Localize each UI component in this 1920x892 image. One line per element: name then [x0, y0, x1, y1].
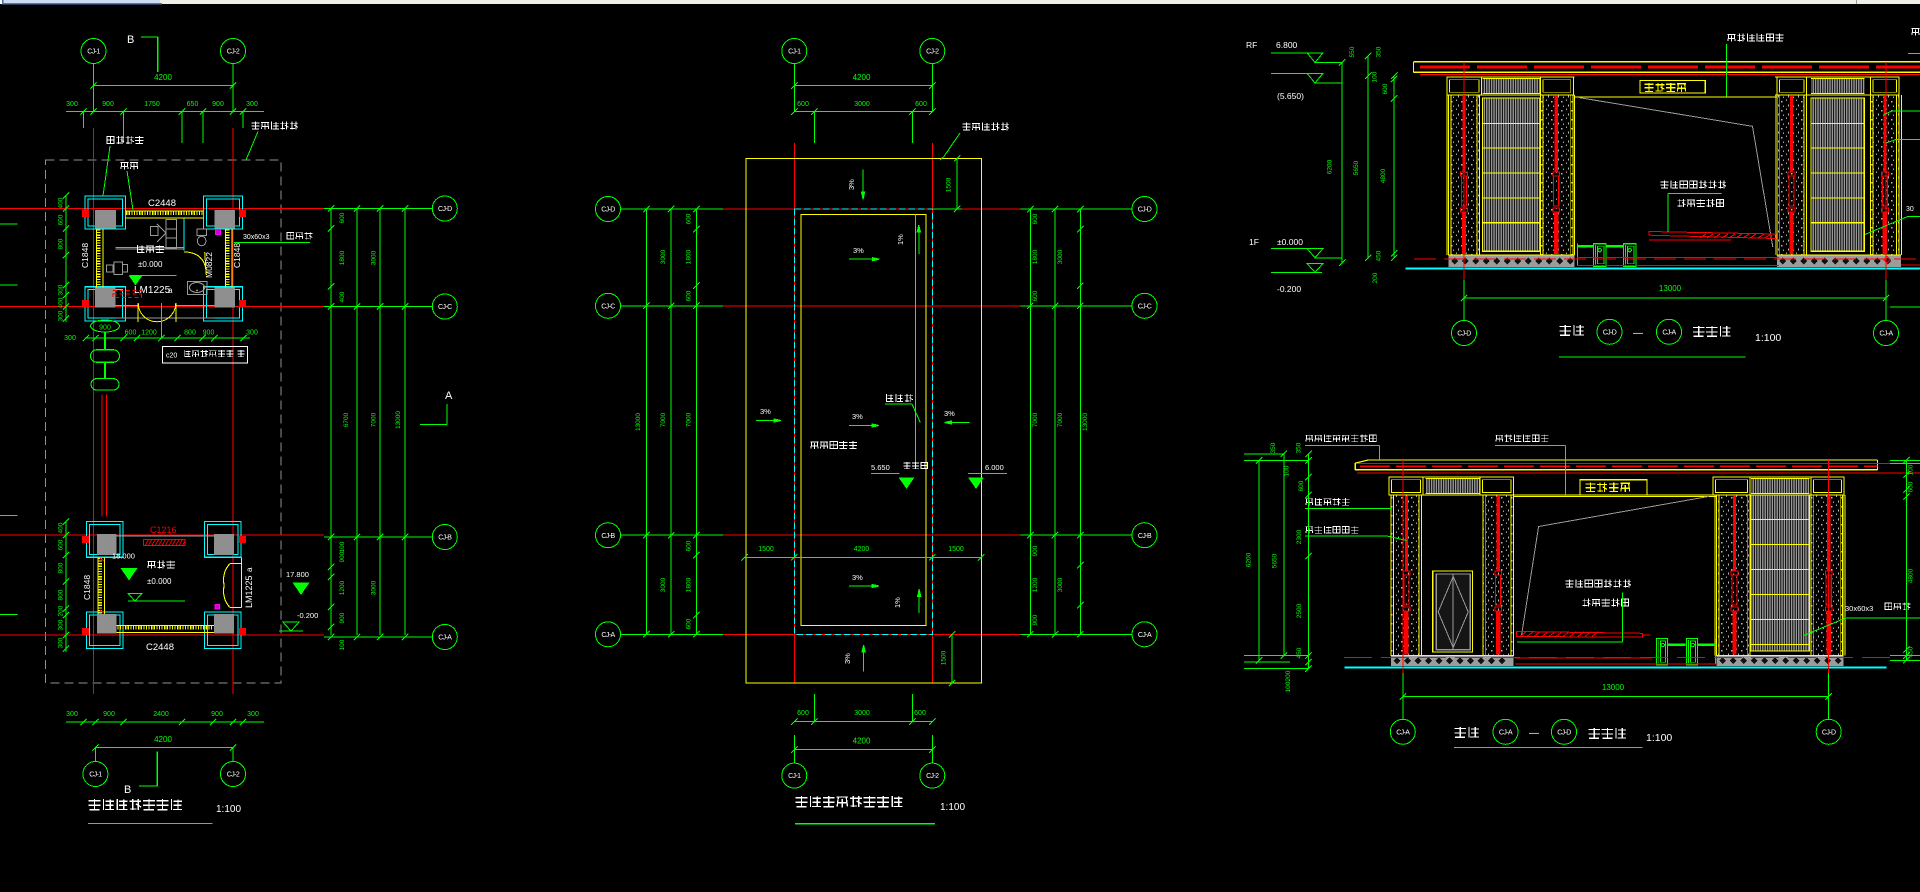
svg-text:CJ-A: CJ-A — [1662, 330, 1676, 337]
non-accessible roof label — [811, 441, 857, 449]
svg-text:18.000: 18.000 — [112, 552, 135, 561]
svg-text:350: 350 — [1376, 46, 1383, 57]
svg-text:7000: 7000 — [1032, 412, 1039, 427]
svg-text:350: 350 — [1296, 442, 1303, 453]
capsule 2 — [91, 379, 119, 391]
svg-text:±0.000: ±0.000 — [138, 260, 163, 269]
svg-text:6.000: 6.000 — [985, 463, 1004, 472]
door M0822 arc — [184, 252, 207, 275]
svg-text:A: A — [445, 390, 453, 402]
watershed gray line — [915, 215, 917, 468]
axis line to circle CJ-A — [324, 636, 432, 638]
barrier arm bottom elev — [1517, 632, 1643, 638]
bottom circles — [793, 735, 795, 763]
svg-text:350: 350 — [1270, 442, 1277, 453]
svg-text:2300: 2300 — [1296, 529, 1303, 544]
svg-text:300: 300 — [58, 637, 65, 648]
svg-text:1:100: 1:100 — [1646, 732, 1672, 744]
svg-text:3000: 3000 — [371, 580, 378, 595]
svg-text:600: 600 — [915, 101, 927, 108]
roof axis CJ-C — [621, 305, 723, 307]
svg-text:300: 300 — [247, 711, 259, 718]
svg-text:4800: 4800 — [1908, 568, 1915, 583]
svg-text:C1848: C1848 — [82, 575, 92, 600]
magenta box — [216, 229, 221, 234]
roof projection label mid — [963, 123, 1009, 131]
left dim chain upper — [65, 196, 67, 323]
svg-text:100: 100 — [1908, 464, 1915, 475]
svg-text:6700: 6700 — [343, 412, 350, 427]
svg-text:—: — — [1633, 328, 1643, 339]
grid circle D bottom of top elev — [1452, 321, 1477, 346]
left group capitals — [1447, 77, 1481, 95]
right dim chain bottom elev — [1905, 460, 1907, 660]
svg-text:600: 600 — [686, 618, 693, 629]
perspective line top elev — [1579, 98, 1773, 248]
svg-text:—: — — [1529, 728, 1539, 739]
svg-text:1200: 1200 — [339, 580, 346, 595]
svg-text:450: 450 — [1908, 646, 1915, 657]
axis line to circle CJ-B — [324, 536, 432, 538]
top dim 4200 — [94, 85, 234, 87]
svg-text:1800: 1800 — [686, 249, 693, 264]
sign board top — [1640, 81, 1705, 93]
svg-text:1%: 1% — [893, 597, 902, 608]
labels bottom elevation — [1305, 435, 1376, 442]
pier A2 — [1541, 95, 1574, 255]
svg-text:CJ-D: CJ-D — [1557, 730, 1571, 737]
svg-text:1%: 1% — [896, 234, 905, 245]
svg-text:4200: 4200 — [853, 73, 871, 82]
svg-text:300: 300 — [66, 711, 78, 718]
svg-text:CJ-A: CJ-A — [438, 635, 452, 642]
ground cyan bottom elev — [1344, 666, 1886, 668]
column BR — [204, 287, 243, 321]
svg-text:7000: 7000 — [660, 412, 667, 427]
svg-text:600: 600 — [125, 330, 137, 337]
svg-text:4800: 4800 — [1380, 168, 1387, 183]
interior partition walls — [116, 247, 184, 249]
right group piers — [1774, 95, 1776, 255]
svg-text:CJ-A: CJ-A — [1138, 632, 1152, 639]
svg-text:1750: 1750 — [144, 101, 160, 108]
svg-text:3000: 3000 — [1057, 249, 1064, 264]
svg-text:C1848: C1848 — [232, 243, 242, 268]
roof projection dashed rect — [46, 160, 282, 683]
column BL2 — [87, 612, 123, 649]
sign board bottom — [1580, 480, 1647, 495]
svg-text:1200: 1200 — [141, 330, 157, 337]
dim 13000 bottom elev — [1403, 696, 1829, 698]
machines bottom elev — [1657, 639, 1668, 665]
level line in duty room — [130, 274, 177, 276]
svg-text:300: 300 — [66, 101, 78, 108]
svg-text:3000: 3000 — [854, 101, 870, 108]
svg-text:6.800: 6.800 — [1276, 40, 1298, 50]
svg-text:100: 100 — [1284, 465, 1291, 476]
watershed label — [886, 394, 913, 402]
right chains middle — [1029, 209, 1031, 634]
svg-text:300: 300 — [64, 335, 76, 342]
red axis verticals bottom elev — [1402, 460, 1404, 673]
roof axis verticals red — [793, 143, 795, 683]
svg-text:1500: 1500 — [948, 546, 964, 553]
svg-text:C1216: C1216 — [150, 525, 177, 535]
svg-text:-0.200: -0.200 — [297, 611, 318, 620]
svg-text:7000: 7000 — [371, 412, 378, 427]
title bottom elevation — [1455, 727, 1479, 738]
room labels — [137, 245, 164, 253]
svg-text:B: B — [127, 34, 134, 46]
vertical axis CJ-2 — [232, 64, 234, 112]
svg-text:400: 400 — [58, 197, 65, 208]
perspective line bottom elev — [1522, 496, 1710, 635]
grid circle CJ-B right — [432, 525, 457, 550]
svg-text:CJ-C: CJ-C — [601, 303, 615, 310]
svg-text:1800: 1800 — [686, 577, 693, 592]
svg-text:3000: 3000 — [660, 577, 667, 592]
right group capitals — [1777, 77, 1807, 95]
svg-text:5.650: 5.650 — [871, 463, 890, 472]
left group capitals bottom — [1389, 477, 1423, 495]
svg-text:550: 550 — [1349, 46, 1356, 57]
svg-text:4200: 4200 — [853, 737, 871, 746]
svg-text:450: 450 — [1296, 647, 1303, 658]
svg-text:CJ-2: CJ-2 — [227, 49, 240, 56]
svg-text:600: 600 — [58, 214, 65, 225]
svg-text:4200: 4200 — [154, 735, 172, 744]
svg-text:CJ-D: CJ-D — [1457, 331, 1471, 338]
gate machines top elev — [1593, 244, 1606, 267]
red path double line — [101, 394, 103, 516]
roof axis CJ-A — [621, 633, 723, 635]
left edge stub ticks — [0, 223, 18, 225]
axis marker squares — [82, 210, 88, 216]
roof outer yellow rect — [746, 158, 982, 683]
door LM1225 double arcs — [137, 303, 139, 322]
svg-text:800: 800 — [58, 562, 65, 573]
svg-text:6200: 6200 — [1327, 159, 1334, 174]
roof slab bottom elevation — [1368, 459, 1878, 461]
svg-text:100: 100 — [1372, 71, 1379, 82]
svg-text:CJ-1: CJ-1 — [89, 772, 102, 779]
red hatch marks on lower walls — [100, 558, 104, 561]
capsules + path below duty room — [91, 320, 120, 332]
grid circle CJ-2 bottom — [221, 762, 246, 787]
dim 1500 top right — [956, 158, 958, 209]
grid circle CJ-A right — [432, 625, 457, 650]
svg-text:(5.650): (5.650) — [1277, 91, 1304, 101]
svg-text:1500: 1500 — [758, 546, 774, 553]
grid circle CJ-D right — [432, 196, 457, 221]
grid circle A bottom of top elev — [1874, 321, 1899, 346]
svg-text:1:100: 1:100 — [940, 802, 965, 813]
svg-text:1:100: 1:100 — [216, 804, 241, 815]
dim 13000 top elev — [1464, 297, 1886, 299]
svg-text:5650: 5650 — [1272, 553, 1279, 568]
pier C2 — [1483, 495, 1514, 656]
svg-text:100: 100 — [1285, 681, 1292, 692]
svg-text:13000: 13000 — [1659, 284, 1682, 293]
svg-text:LM1225: LM1225 — [244, 575, 254, 608]
svg-text:800: 800 — [58, 238, 65, 249]
svg-text:800: 800 — [58, 589, 65, 600]
pier C1 — [1391, 495, 1422, 656]
svg-text:3%: 3% — [847, 179, 856, 190]
furniture: toilet — [197, 229, 207, 236]
svg-text:-0.200: -0.200 — [1277, 284, 1301, 294]
svg-text:300: 300 — [58, 310, 65, 321]
svg-text:1800: 1800 — [339, 250, 346, 265]
pier A1 — [1449, 95, 1480, 255]
grid circles middle plan — [596, 197, 621, 222]
axis CJ-B red line — [0, 534, 324, 536]
svg-text:200: 200 — [1285, 670, 1292, 681]
axis line to circle CJ-C — [324, 306, 432, 308]
red dashed mat — [113, 290, 142, 297]
svg-text:13000: 13000 — [1602, 683, 1625, 692]
svg-text:600: 600 — [797, 710, 809, 717]
svg-text:13000: 13000 — [1082, 413, 1089, 431]
svg-text:CJ-C: CJ-C — [1138, 303, 1152, 310]
svg-text:1F: 1F — [1249, 237, 1259, 247]
svg-text:CJ-A: CJ-A — [1396, 729, 1410, 736]
c20 threshold label box — [162, 347, 247, 363]
svg-text:300: 300 — [246, 330, 258, 337]
svg-text:CJ-2: CJ-2 — [926, 773, 939, 780]
top dims middle — [794, 85, 932, 87]
svg-text:C2448: C2448 — [146, 642, 174, 653]
svg-text:600: 600 — [914, 710, 926, 717]
svg-text:13000: 13000 — [635, 413, 642, 431]
svg-text:CJ-C: CJ-C — [438, 304, 452, 311]
pier D1 — [1717, 495, 1751, 656]
label roof projection line — [252, 122, 298, 130]
svg-text:300: 300 — [246, 101, 258, 108]
column TL — [85, 196, 125, 229]
svg-text:7000: 7000 — [686, 412, 693, 427]
plinth right bottom elev — [1717, 655, 1844, 666]
svg-text:a: a — [168, 286, 173, 295]
svg-text:900: 900 — [211, 711, 223, 718]
dim chain under duty room — [85, 337, 250, 339]
barrier arm top elev — [1649, 232, 1776, 239]
svg-text:30: 30 — [1906, 206, 1914, 213]
column TR2 — [205, 522, 242, 558]
svg-text:B: B — [124, 784, 131, 796]
svg-text:CJ-D: CJ-D — [1603, 330, 1617, 337]
svg-text:5650: 5650 — [1353, 160, 1360, 175]
fascia lines bottom elev — [1389, 476, 1513, 478]
svg-text:600: 600 — [686, 540, 693, 551]
louver panel L1 — [1482, 98, 1540, 251]
pier B1 — [1777, 95, 1807, 255]
svg-text:CJ-A: CJ-A — [1879, 331, 1893, 338]
green connector line — [104, 332, 106, 350]
svg-text:7000: 7000 — [1057, 412, 1064, 427]
svg-text:600: 600 — [797, 101, 809, 108]
roof cyan dashed rect — [794, 209, 932, 634]
svg-text:900: 900 — [339, 551, 346, 562]
svg-text:600: 600 — [1908, 481, 1915, 492]
svg-text:400: 400 — [58, 297, 65, 308]
svg-text:3%: 3% — [944, 409, 955, 418]
magenta box lower — [215, 605, 220, 610]
louver panel bottom — [1751, 495, 1809, 651]
svg-text:CJ-1: CJ-1 — [788, 49, 801, 56]
svg-text:2400: 2400 — [153, 711, 169, 718]
label zhuangshi goujian — [107, 136, 143, 144]
window C1848 right wall — [225, 229, 227, 288]
svg-text:±0.000: ±0.000 — [1277, 237, 1303, 247]
svg-text:3%: 3% — [852, 573, 863, 582]
grid circle D bottom elev — [1816, 719, 1841, 744]
svg-text:200: 200 — [1372, 272, 1379, 283]
bottom dims middle — [794, 721, 932, 723]
column BL — [85, 287, 125, 321]
furniture: cabinet top — [166, 220, 177, 249]
svg-text:100: 100 — [339, 639, 346, 650]
svg-text:3000: 3000 — [854, 710, 870, 717]
svg-text:3%: 3% — [853, 246, 864, 255]
wall C2448 bottom lower — [117, 624, 215, 626]
right group capitals bottom — [1713, 477, 1750, 495]
svg-text:900: 900 — [339, 612, 346, 623]
svg-text:900: 900 — [203, 330, 215, 337]
svg-text:13000: 13000 — [395, 411, 402, 429]
svg-text:6200: 6200 — [1246, 552, 1253, 567]
grid circle CJ-1 top — [81, 39, 106, 64]
svg-text:c20: c20 — [166, 353, 177, 360]
svg-text:4200: 4200 — [854, 546, 870, 553]
labels top elevation — [1728, 34, 1784, 42]
door LM1225a right lower — [241, 557, 243, 607]
svg-text:400: 400 — [58, 522, 65, 533]
svg-text:17.800: 17.800 — [286, 570, 309, 579]
pier B2 — [1870, 95, 1899, 255]
svg-text:900: 900 — [212, 101, 224, 108]
svg-text:600: 600 — [339, 212, 346, 223]
column BR2 — [205, 612, 242, 649]
axis CJ-A red line — [0, 634, 324, 636]
svg-text:900: 900 — [102, 101, 114, 108]
furniture: basin — [188, 282, 208, 295]
inner dim row 1500 4200 1500 — [745, 556, 982, 558]
extension line door center — [160, 303, 162, 338]
svg-text:400: 400 — [339, 291, 346, 302]
furniture: desk lower-left — [114, 262, 123, 274]
bottom wall of duty room — [116, 305, 139, 307]
svg-text:3%: 3% — [843, 653, 852, 664]
svg-text:CJ-D: CJ-D — [438, 206, 452, 213]
svg-text:1800: 1800 — [1032, 249, 1039, 264]
top circles — [793, 64, 795, 112]
bottom dim chain — [66, 721, 264, 723]
svg-text:30x60x3: 30x60x3 — [1845, 604, 1873, 613]
svg-text:1500: 1500 — [946, 177, 953, 192]
base red dashes top elev — [1577, 256, 1779, 258]
svg-text:CJ-D: CJ-D — [601, 207, 615, 214]
svg-text:CJ-B: CJ-B — [601, 533, 615, 540]
svg-text:650: 650 — [187, 101, 199, 108]
svg-text:300: 300 — [58, 619, 65, 630]
svg-text:a: a — [245, 567, 254, 572]
svg-text:CJ-D: CJ-D — [1822, 729, 1836, 736]
svg-text:RF: RF — [1246, 40, 1257, 50]
column TL2 — [87, 522, 123, 558]
roof slab top elevation — [1414, 61, 1920, 63]
grid circle CJ-2 top — [221, 39, 246, 64]
svg-text:30x60x3: 30x60x3 — [243, 234, 270, 241]
title top elevation — [1560, 325, 1584, 336]
svg-text:CJ-B: CJ-B — [1138, 533, 1152, 540]
svg-text:4200: 4200 — [154, 73, 172, 82]
svg-text:2500: 2500 — [1296, 603, 1303, 618]
svg-text:600: 600 — [1032, 290, 1039, 301]
svg-text:CJ-A: CJ-A — [601, 632, 615, 639]
fascia lines — [1447, 76, 1574, 78]
plinth left bottom elev — [1391, 655, 1513, 666]
roof axis CJ-D — [621, 208, 723, 210]
svg-text:200: 200 — [58, 605, 65, 616]
louver panel L2 — [1811, 98, 1864, 251]
left chains middle — [645, 209, 647, 634]
pier D2 — [1811, 495, 1843, 656]
svg-text:CJ-A: CJ-A — [1499, 730, 1513, 737]
vertical axis CJ-1 — [93, 64, 95, 112]
axis CJ-D red line — [0, 208, 324, 210]
mid title — [796, 796, 903, 807]
top window strip — [0, 0, 1920, 4]
svg-text:CJ-D: CJ-D — [1138, 207, 1152, 214]
svg-text:900: 900 — [103, 711, 115, 718]
grid circle A bottom elev — [1390, 719, 1415, 744]
svg-text:±0.000: ±0.000 — [147, 577, 172, 586]
dim 1500 bottom — [951, 634, 953, 683]
top dim chain — [66, 111, 264, 113]
window C1848 left wall — [96, 229, 98, 288]
roof axis CJ-B — [621, 534, 723, 536]
svg-text:900: 900 — [1032, 545, 1039, 556]
svg-text:3000: 3000 — [371, 250, 378, 265]
svg-text:600: 600 — [1032, 213, 1039, 224]
svg-text:C2448: C2448 — [148, 198, 176, 209]
svg-text:1:100: 1:100 — [1755, 332, 1781, 344]
wall C1848 left lower — [97, 557, 99, 614]
svg-text:3000: 3000 — [1057, 577, 1064, 592]
svg-text:100: 100 — [339, 541, 346, 552]
svg-text:3%: 3% — [852, 412, 863, 421]
right dim chains of left plan — [330, 209, 332, 636]
door bottom elev — [1433, 571, 1473, 652]
svg-text:3%: 3% — [760, 407, 771, 416]
svg-text:C1848: C1848 — [80, 243, 90, 268]
left group piers — [1446, 95, 1448, 255]
svg-text:CJ-1: CJ-1 — [788, 773, 801, 780]
svg-text:600: 600 — [686, 290, 693, 301]
svg-text:600: 600 — [58, 539, 65, 550]
svg-text:900: 900 — [99, 325, 111, 332]
svg-text:1500: 1500 — [941, 650, 948, 665]
axis CJ-C red line — [0, 306, 324, 308]
capsule 1 — [91, 350, 120, 363]
red axis verticals top elev — [1463, 62, 1465, 280]
svg-text:CJ-1: CJ-1 — [87, 49, 100, 56]
svg-text:800: 800 — [184, 330, 196, 337]
svg-text:CJ-2: CJ-2 — [926, 49, 939, 56]
svg-text:300: 300 — [58, 284, 65, 295]
label qizhuan — [121, 162, 139, 169]
